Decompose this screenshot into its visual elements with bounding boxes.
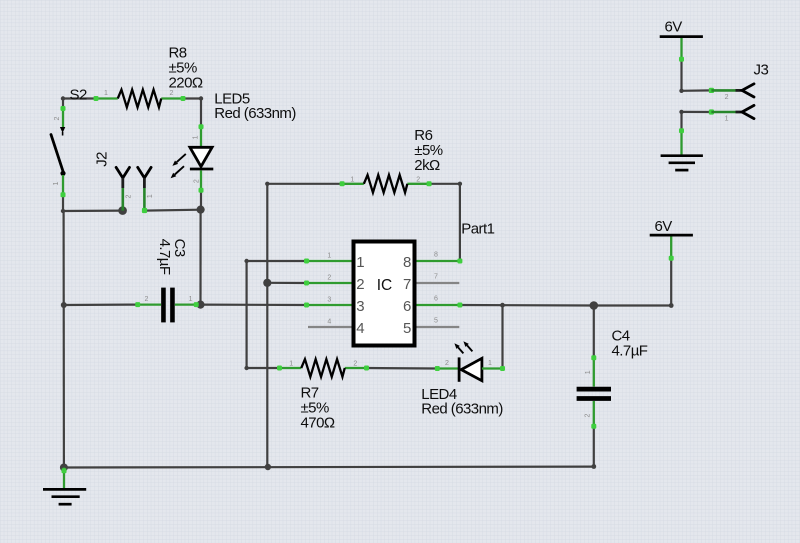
wire 6V supply 1 stem	[680, 59, 682, 91]
pin 1 lead (top)	[200, 127, 202, 148]
wire C3 pin1 to node	[196, 304, 200, 306]
svg-text:1: 1	[147, 194, 154, 198]
node bottom-left corner	[61, 209, 65, 213]
svg-text:220Ω: 220Ω	[169, 75, 203, 92]
wire left rail to C3 pin2	[64, 304, 138, 307]
svg-text:2: 2	[445, 360, 449, 367]
svg-text:4: 4	[327, 318, 331, 325]
wire C4 pin2 down to corner	[593, 427, 595, 467]
svg-text:1: 1	[104, 90, 108, 97]
svg-text:6: 6	[434, 296, 438, 303]
svg-text:1: 1	[193, 135, 200, 139]
svg-text:7: 7	[434, 274, 438, 281]
svg-text:1: 1	[53, 181, 60, 185]
svg-text:2: 2	[353, 360, 357, 367]
svg-text:2: 2	[356, 276, 364, 293]
LED LED4 Red 633nm	[421, 341, 505, 417]
svg-text:Red (633nm): Red (633nm)	[214, 105, 296, 122]
pin 2 lead (left)	[138, 303, 161, 305]
wire R7 pin2 to LED4 pin2	[367, 367, 438, 370]
cathode bar	[190, 168, 213, 171]
fixed contact arrow	[60, 127, 65, 133]
svg-text:1: 1	[327, 252, 331, 259]
svg-text:2: 2	[725, 94, 729, 101]
wire S2 top to R8 left	[63, 97, 96, 99]
svg-text:1: 1	[585, 370, 592, 374]
capacitor C4 4.7uF	[577, 328, 648, 429]
svg-text:5: 5	[434, 318, 438, 325]
svg-text:IC: IC	[377, 277, 393, 294]
IC body	[354, 242, 415, 346]
svg-text:470Ω: 470Ω	[301, 415, 335, 432]
node R7 left corner	[244, 366, 248, 370]
connector J3	[709, 62, 769, 123]
svg-text:5: 5	[403, 320, 411, 337]
svg-text:Red (633nm): Red (633nm)	[421, 400, 503, 417]
svg-text:4: 4	[356, 320, 364, 337]
node R6 right corner	[458, 182, 462, 186]
pin 2 stub	[306, 282, 351, 284]
pin 2 lead (bottom)	[200, 170, 202, 190]
LED LED5 Red 633nm	[171, 91, 297, 193]
svg-text:1: 1	[725, 116, 729, 123]
pin 1 lead (bottom)	[62, 175, 64, 197]
svg-text:3: 3	[356, 298, 364, 315]
pin 2 lead (bottom)	[593, 401, 595, 427]
wire corner to R7 pin1	[247, 367, 280, 369]
plates	[161, 288, 166, 323]
pin 2 lead	[122, 188, 125, 211]
emission arrows	[177, 154, 186, 162]
svg-text:1: 1	[356, 254, 364, 271]
svg-text:J2: J2	[93, 152, 110, 167]
svg-text:1: 1	[189, 296, 193, 303]
connector J2	[93, 152, 154, 213]
pin 1 stub	[306, 260, 351, 262]
node ground rail left junction	[60, 464, 68, 472]
node 6V2 corner	[669, 303, 674, 308]
node IC pin2 junction	[263, 279, 271, 287]
svg-text:6: 6	[403, 298, 411, 315]
pin 8 stub	[416, 260, 460, 262]
wire corner to J3 pin1	[682, 111, 712, 113]
svg-text:8: 8	[434, 252, 438, 259]
wire C4 node down to C4 pin1	[593, 306, 595, 358]
power supply 6V mid-right	[650, 218, 693, 261]
svg-text:J3: J3	[754, 62, 769, 79]
svg-text:2: 2	[585, 413, 592, 417]
node rail to C3 junction	[61, 302, 67, 308]
svg-text:1: 1	[350, 176, 354, 183]
pin 2 fork	[116, 167, 129, 178]
svg-text:S2: S2	[70, 87, 87, 104]
svg-text:8: 8	[403, 254, 411, 271]
wire corner down to LED5 pin1	[200, 99, 202, 127]
pin 7 stub unconnected	[416, 282, 459, 284]
wire bottom-left horizontal to J2 pin2 node	[63, 210, 123, 213]
pin 6 stub	[416, 304, 460, 306]
node IC pin1 corner	[244, 259, 248, 263]
pin 1 fork	[736, 111, 743, 114]
svg-text:Part1: Part1	[461, 221, 494, 238]
svg-text:3: 3	[327, 296, 331, 303]
node bottom right corner	[591, 464, 596, 469]
cathode bar	[458, 357, 461, 381]
wire node down to C3 node	[199, 210, 201, 305]
wire S2 pin1 to corner	[62, 196, 64, 211]
svg-text:2: 2	[327, 274, 331, 281]
node R6 left corner	[265, 182, 269, 186]
node R8 right corner	[199, 96, 203, 100]
pin 1 lead (right)	[175, 303, 198, 305]
pin 2 lead (top)	[62, 107, 64, 129]
pin 2 fork	[736, 89, 743, 92]
wire LED4 pin1 up to pin6 wire	[501, 305, 503, 368]
pin 3 stub	[306, 304, 351, 306]
wire IC pin6 to C4 node	[460, 304, 594, 307]
wire corner down to ground 2	[680, 112, 682, 131]
svg-text:2kΩ: 2kΩ	[414, 157, 440, 174]
ground below J3	[661, 128, 703, 170]
ground bottom-left	[43, 468, 86, 505]
wire corner down to IC pin8	[459, 184, 461, 261]
svg-text:2: 2	[145, 296, 149, 303]
svg-text:7: 7	[403, 276, 411, 293]
wire node to IC pin2	[267, 282, 306, 284]
wire corner to J3 pin2	[682, 89, 712, 92]
wire left rail vertical	[62, 211, 65, 468]
svg-text:6V: 6V	[655, 218, 673, 235]
wire vertical pin1 to R7	[246, 261, 248, 368]
svg-text:4.7µF: 4.7µF	[612, 343, 648, 360]
wire bottom ground rail	[64, 466, 594, 469]
pin 2 lead	[709, 88, 714, 93]
op-amp / timer IC U1 Part1	[304, 221, 495, 346]
switch S2	[51, 87, 87, 198]
resistor R8 220 ohm	[94, 45, 203, 108]
pin 1 lead (right)	[482, 367, 503, 369]
pin 1 lead (top)	[593, 358, 595, 387]
node ground rail mid junction	[265, 464, 271, 470]
power supply 6V top-right	[660, 19, 703, 62]
node J3 pin2 corner	[679, 89, 683, 93]
wire R6 pin2 to corner	[429, 183, 460, 185]
wire J2 pin1 to node	[144, 209, 200, 212]
pin 4 stub unconnected	[308, 326, 352, 328]
pin 5 stub unconnected	[416, 326, 459, 328]
node LED4 riser junction	[500, 303, 505, 308]
capacitor C3 4.7uF	[135, 239, 199, 323]
wire corner to IC pin1	[247, 260, 307, 262]
emission arrows	[458, 347, 463, 353]
lever	[51, 135, 64, 173]
pivot dot	[60, 171, 65, 176]
node C3 pin1 junction	[196, 301, 204, 309]
svg-text:4.7µF: 4.7µF	[156, 239, 173, 275]
wire S2 pin2 stub	[62, 99, 64, 108]
wire R8 right to corner	[183, 97, 201, 99]
resistor R7 470 ohm	[277, 359, 369, 432]
wire corner up to 6V supply 2	[670, 258, 672, 306]
pin 1 fork	[138, 167, 151, 178]
node LED5/J2 pin1 junction	[197, 206, 205, 214]
node J2 pin2 junction	[118, 206, 127, 215]
svg-text:6V: 6V	[665, 19, 683, 36]
wire C4 node to right corner	[594, 304, 671, 306]
plates	[577, 387, 611, 392]
pin 2 lead (left)	[437, 367, 458, 369]
svg-text:2: 2	[416, 176, 420, 183]
node J3 pin1 corner	[679, 110, 683, 114]
resistor R6 2k ohm	[340, 127, 443, 193]
svg-text:2: 2	[193, 179, 200, 183]
diode triangle	[461, 358, 482, 380]
wire LED5 pin2 to node	[200, 190, 202, 210]
svg-text:1: 1	[488, 360, 492, 367]
pin 1 lead	[709, 109, 714, 114]
wire R6 left corner to R6 pin1	[267, 183, 342, 185]
wire long vertical R6 left to bottom	[266, 184, 268, 467]
pin 1 lead	[143, 188, 146, 211]
wire C3 node to IC pin3	[201, 304, 307, 307]
svg-text:1: 1	[289, 360, 293, 367]
svg-text:2: 2	[54, 116, 61, 120]
node C4 top junction	[590, 301, 599, 310]
diode triangle	[190, 147, 212, 166]
node S2 top corner	[61, 96, 65, 100]
svg-text:2: 2	[126, 194, 133, 198]
